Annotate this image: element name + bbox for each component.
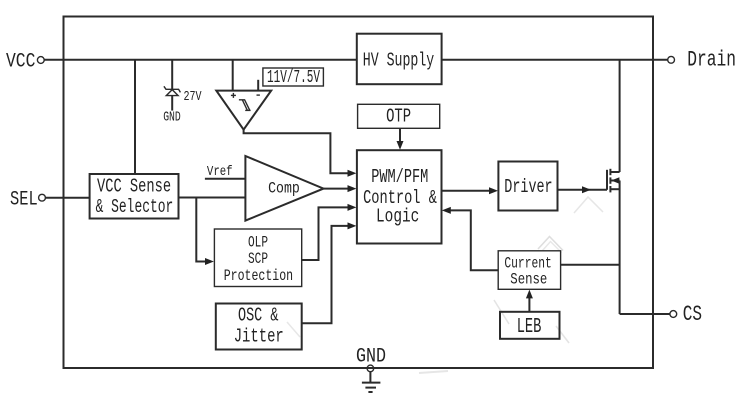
wire comparator plus input [232, 60, 234, 91]
svg-text:11V/7.5V: 11V/7.5V [267, 68, 320, 88]
wire Driver to gate [558, 189, 608, 191]
zener diode 27V [164, 60, 181, 111]
wire VCC to VCC Sense [134, 60, 136, 174]
svg-text:OSC &: OSC & [238, 304, 278, 326]
svg-text:VCC: VCC [6, 51, 35, 74]
watermark chevron near MOSFET [574, 197, 603, 213]
wire LEB to Current Sense [528, 294, 530, 312]
svg-text:SCP: SCP [248, 250, 268, 268]
pin CS [620, 301, 702, 327]
block OLP SCP Protection [214, 229, 301, 287]
node A (VCC Sense output junction) [179, 197, 246, 199]
op-amp Comp [245, 156, 323, 221]
svg-text:LEB: LEB [517, 315, 542, 339]
svg-text:Logic: Logic [376, 206, 419, 228]
svg-text:Sense: Sense [510, 271, 547, 289]
pin Drain [668, 46, 736, 72]
svg-text:Protection: Protection [224, 267, 293, 285]
label box 11V/7.5V [263, 68, 324, 88]
svg-text:SEL: SEL [10, 189, 38, 212]
block PWM/PFM Control & Logic [357, 150, 442, 243]
watermark smudge near bottom GND [419, 371, 448, 373]
svg-text:HV Supply: HV Supply [363, 50, 434, 72]
pin SEL [10, 189, 90, 212]
wire comparator minus stub [257, 80, 259, 91]
pin VCC [6, 51, 44, 74]
svg-text:VCC Sense: VCC Sense [97, 175, 171, 197]
watermark chevron near Current Sense [538, 237, 563, 251]
wire Comp output to PWM [324, 188, 353, 190]
op-amp U1 (11V/7.5V comparator) [216, 91, 271, 130]
block VCC Sense & Selector [90, 174, 179, 219]
svg-text:Comp: Comp [268, 179, 300, 197]
svg-text:OTP: OTP [386, 106, 411, 128]
block OTP [358, 104, 440, 128]
wire Current Sense to PWM [446, 210, 498, 270]
wire OSC to PWM [302, 226, 352, 323]
wire MOSFET source down to CS [619, 181, 621, 315]
svg-text:PWM/PFM: PWM/PFM [371, 166, 428, 188]
ground symbol [362, 372, 381, 392]
block HV Supply [357, 34, 442, 84]
svg-text:OLP: OLP [248, 233, 268, 251]
svg-text:Driver: Driver [504, 176, 552, 198]
svg-text:Drain: Drain [687, 46, 736, 72]
wire PWM to Driver [442, 190, 494, 192]
wire Vref underline [205, 178, 246, 180]
pin GND (bottom) [356, 346, 386, 372]
svg-text:CS: CS [683, 301, 702, 327]
wire OLP to PWM [302, 207, 352, 260]
IC outer border [64, 17, 654, 369]
wire Current Sense to source line [561, 264, 620, 266]
svg-text:27V: 27V [184, 89, 203, 105]
block Driver [498, 162, 557, 211]
wire OTP to PWM [399, 128, 401, 145]
wire VCC net [44, 59, 357, 61]
svg-text:Vref: Vref [207, 164, 233, 180]
transistor Q1 (power MOSFET) [607, 169, 620, 193]
svg-text:GND: GND [163, 110, 181, 126]
block LEB [500, 312, 560, 339]
svg-text:Jitter: Jitter [234, 326, 284, 348]
block Current Sense [498, 251, 560, 289]
watermark chevron near OSC box [287, 322, 300, 337]
watermark diagonal near LEB [494, 300, 509, 324]
wire HV Supply to Drain [442, 59, 668, 61]
svg-text:& Selector: & Selector [96, 196, 174, 218]
wire MOSFET drain up [619, 60, 621, 172]
block OSC & Jitter [216, 304, 302, 350]
wire junction down to OLP [196, 198, 209, 262]
wire comparator output to PWM [244, 130, 352, 174]
